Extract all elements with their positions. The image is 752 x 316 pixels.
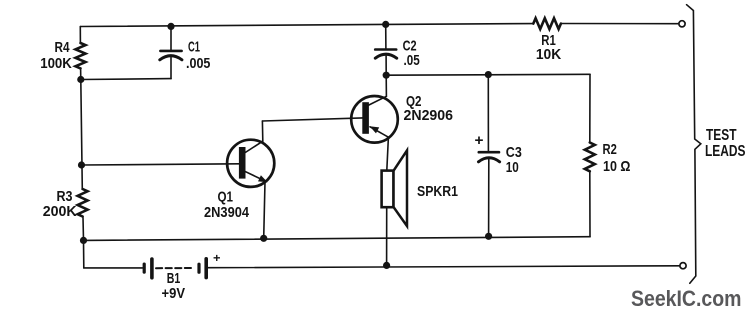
transistor Q1 collector diagonal [245, 141, 263, 153]
node C2 bottom / Q2 emitter [383, 72, 390, 79]
svg-text:SeekIC.com: SeekIC.com [631, 286, 742, 311]
svg-text:10 Ω: 10 Ω [603, 159, 631, 175]
terminal top (open circle) [679, 21, 685, 27]
svg-text:LEADS: LEADS [705, 143, 746, 160]
svg-text:10K: 10K [536, 47, 562, 63]
svg-text:2N3904: 2N3904 [204, 205, 250, 221]
battery B1 cell2 long plate [204, 259, 208, 278]
capacitor C1 bottom curved plate [160, 56, 182, 60]
wire Q1 base from R3 node [82, 164, 239, 165]
battery B1 cell1 short plate [143, 264, 146, 272]
capacitor C3 bottom curved plate [479, 158, 500, 162]
resistor R1 [533, 18, 561, 29]
wire emitter rail (bottom inner rail) [84, 237, 591, 241]
transistor Q1 emitter diagonal [245, 171, 265, 181]
capacitor C2 bottom curved plate [375, 54, 396, 58]
node Q1 base / R3 top [78, 161, 85, 168]
svg-text:C1: C1 [188, 40, 200, 56]
svg-text:R2: R2 [603, 142, 617, 158]
svg-text:2N2906: 2N2906 [404, 108, 454, 124]
wire R2 branch upper [589, 74, 591, 142]
capacitor C1 lead top [170, 26, 172, 50]
wire Q1 emitter vertical [264, 182, 265, 239]
wire speaker bottom to battery rail [386, 208, 388, 266]
capacitor C3 lead bottom [488, 160, 490, 237]
svg-text:10: 10 [506, 160, 519, 176]
transistor Q1 base bar [239, 147, 246, 179]
wire top rail left of R1 [80, 24, 533, 27]
battery B1 cell1 long plate [150, 259, 154, 278]
node R4 bottom [77, 76, 84, 83]
wire mid rail (C2 node to R2 corner) [386, 73, 590, 76]
node C3 top [485, 71, 492, 78]
wire battery rail left segment [84, 267, 143, 269]
test lead wire with brace kink [687, 5, 701, 284]
svg-text:100K: 100K [40, 56, 72, 72]
wire left rail upper (R4 section) [79, 27, 81, 44]
battery B1 cell2 short plate [197, 264, 200, 272]
svg-text:R4: R4 [55, 40, 71, 56]
svg-text:.005: .005 [186, 56, 210, 72]
wire Q1 collector to Q2 base [262, 118, 362, 121]
resistor R2 [585, 143, 595, 172]
capacitor C2 lead bottom [385, 56, 387, 75]
wire R2 branch lower [589, 171, 591, 236]
wire Q2 bottom to speaker [387, 137, 389, 170]
svg-text:Q1: Q1 [218, 189, 234, 205]
node C1 top [167, 23, 174, 30]
wire C1 bottom to left rail node [81, 78, 171, 81]
svg-text:R3: R3 [57, 189, 73, 205]
speaker SPKR1 cone [393, 150, 407, 226]
transistor Q2 emitter arrowhead [370, 126, 380, 133]
wire R3 bottom to bottom-left node [82, 218, 85, 241]
svg-text:+: + [213, 251, 221, 265]
transistor Q2 [351, 96, 398, 143]
transistor Q1 emitter arrowhead [258, 175, 268, 182]
battery B1 dashed link [156, 267, 194, 269]
node speaker to battery rail [383, 262, 390, 269]
capacitor C2 top plate [375, 48, 396, 51]
svg-text:+: + [475, 133, 484, 149]
transistor Q2 base bar [362, 102, 369, 134]
node Q1 emitter on rail [260, 235, 267, 242]
capacitor C1 lead bottom [170, 58, 172, 79]
transistor Q1 [227, 140, 274, 187]
capacitor C1 top plate [160, 50, 181, 53]
resistor R3 [78, 189, 88, 217]
capacitor C2 lead top [385, 24, 387, 48]
svg-text:C3: C3 [506, 145, 522, 161]
wire battery rail right segment to terminal [208, 266, 680, 268]
capacitor C3 top plate [479, 151, 499, 154]
capacitor C3 lead top [487, 75, 489, 152]
terminal bottom (open circle) [680, 263, 686, 269]
node bottom-left rail [80, 237, 87, 244]
transistor Q2 emitter diagonal (bottom) [370, 127, 388, 137]
svg-text:B1: B1 [167, 271, 181, 287]
speaker SPKR1 driver rectangle [382, 171, 394, 208]
svg-text:SPKR1: SPKR1 [417, 184, 458, 200]
wire Q2 top to mid node [385, 75, 387, 96]
node C2 top [382, 21, 389, 28]
wire left rail to battery line [83, 240, 85, 268]
svg-text:.05: .05 [404, 53, 420, 69]
transistor Q2 collector diagonal (top) [369, 96, 387, 105]
wire left rail mid (node to R3) [81, 80, 83, 190]
svg-text:200K: 200K [43, 204, 77, 220]
wire top rail right of R1 [561, 23, 679, 25]
node C3 bottom on rail [485, 233, 492, 240]
resistor R4 [76, 43, 86, 68]
svg-text:+9V: +9V [162, 286, 186, 302]
wire Q1 collector vertical [261, 121, 263, 141]
wire R4 bottom to node [80, 68, 82, 79]
svg-text:TEST: TEST [706, 127, 737, 144]
